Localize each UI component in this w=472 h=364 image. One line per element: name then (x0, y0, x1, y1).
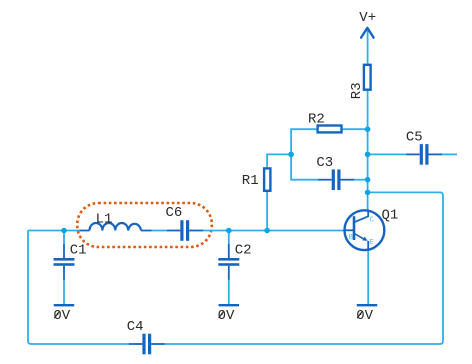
svg-text:C1: C1 (70, 242, 87, 258)
svg-text:V+: V+ (359, 10, 376, 26)
svg-text:C: C (370, 216, 375, 224)
svg-text:C3: C3 (316, 155, 333, 171)
svg-text:L1: L1 (96, 211, 113, 227)
svg-text:C2: C2 (235, 243, 252, 259)
svg-text:R2: R2 (308, 111, 325, 127)
svg-text:B: B (349, 234, 354, 242)
svg-text:C6: C6 (166, 205, 183, 221)
svg-text:R3: R3 (349, 82, 365, 99)
svg-text:R1: R1 (242, 173, 259, 189)
svg-text:E: E (369, 239, 374, 247)
svg-text:C4: C4 (127, 319, 144, 335)
svg-text:Q1: Q1 (382, 207, 399, 223)
svg-text:C5: C5 (406, 130, 423, 146)
